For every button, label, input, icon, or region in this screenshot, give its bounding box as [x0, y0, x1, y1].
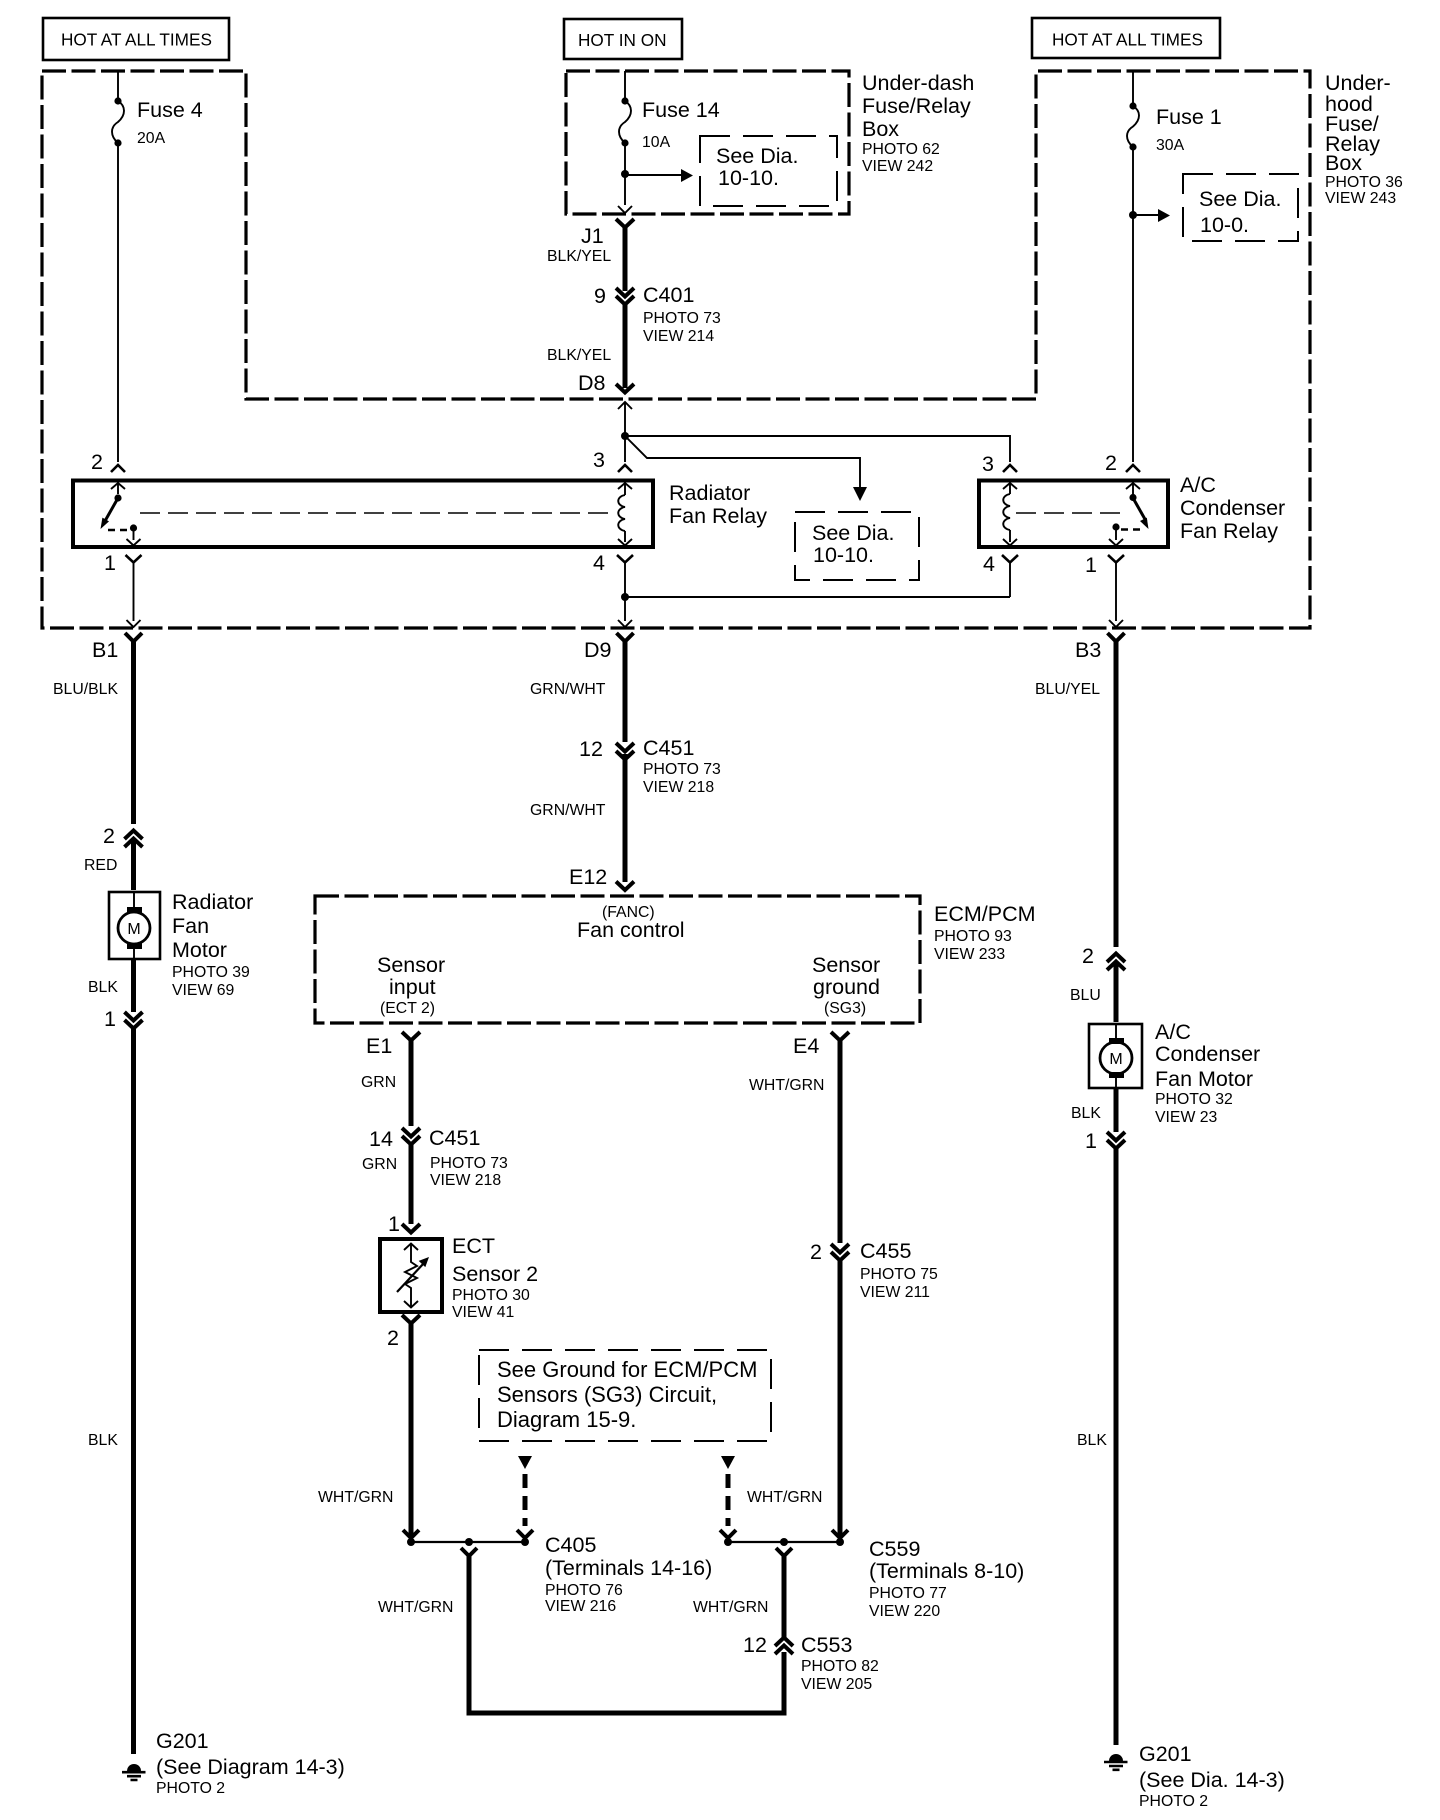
svg-text:(Terminals 14-16): (Terminals 14-16) [545, 1556, 712, 1580]
svg-text:RED: RED [84, 857, 117, 874]
svg-text:Radiator: Radiator [172, 890, 253, 914]
svg-text:2: 2 [103, 824, 115, 848]
svg-text:2: 2 [810, 1240, 822, 1264]
svg-text:Fan control: Fan control [577, 918, 685, 942]
svg-text:12: 12 [743, 1633, 767, 1657]
svg-text:PHOTO 73: PHOTO 73 [430, 1155, 508, 1172]
svg-text:2: 2 [1082, 944, 1094, 968]
svg-text:E4: E4 [793, 1034, 819, 1058]
svg-text:C455: C455 [860, 1239, 911, 1263]
svg-text:PHOTO 2: PHOTO 2 [1139, 1793, 1208, 1810]
svg-text:10-0.: 10-0. [1200, 213, 1249, 237]
svg-text:J1: J1 [581, 224, 604, 248]
svg-text:G201: G201 [1139, 1742, 1192, 1766]
svg-text:1: 1 [388, 1212, 400, 1236]
svg-text:10A: 10A [642, 134, 671, 151]
svg-text:Radiator: Radiator [669, 481, 750, 505]
svg-text:Fan: Fan [172, 914, 209, 938]
svg-text:VIEW 242: VIEW 242 [862, 158, 933, 175]
svg-text:C451: C451 [429, 1126, 480, 1150]
svg-text:See Dia.: See Dia. [1199, 187, 1281, 211]
svg-text:PHOTO 82: PHOTO 82 [801, 1658, 879, 1675]
svg-text:PHOTO 36: PHOTO 36 [1325, 174, 1403, 191]
svg-text:3: 3 [982, 452, 994, 476]
svg-text:9: 9 [594, 284, 606, 308]
svg-text:E1: E1 [366, 1034, 392, 1058]
svg-text:Sensor: Sensor [377, 953, 445, 977]
svg-text:VIEW 214: VIEW 214 [643, 328, 714, 345]
svg-text:GRN: GRN [362, 1156, 397, 1173]
svg-text:VIEW 218: VIEW 218 [643, 779, 714, 796]
svg-text:WHT/GRN: WHT/GRN [318, 1489, 393, 1506]
svg-text:PHOTO 62: PHOTO 62 [862, 141, 940, 158]
svg-text:ground: ground [813, 975, 880, 999]
svg-text:Condenser: Condenser [1180, 496, 1285, 520]
svg-text:(See Diagram 14-3): (See Diagram 14-3) [156, 1755, 345, 1779]
svg-text:C405: C405 [545, 1533, 596, 1557]
svg-text:BLU: BLU [1070, 987, 1101, 1004]
svg-text:input: input [389, 975, 436, 999]
svg-text:Fuse 4: Fuse 4 [137, 98, 203, 122]
svg-text:20A: 20A [137, 130, 166, 147]
svg-text:BLK/YEL: BLK/YEL [547, 347, 611, 364]
svg-text:Box: Box [1325, 151, 1362, 175]
svg-text:12: 12 [579, 737, 603, 761]
svg-text:(Terminals 8-10): (Terminals 8-10) [869, 1559, 1024, 1583]
svg-text:VIEW 218: VIEW 218 [430, 1172, 501, 1189]
svg-text:VIEW 216: VIEW 216 [545, 1598, 616, 1615]
svg-text:Fuse/Relay: Fuse/Relay [862, 94, 971, 118]
svg-text:VIEW 41: VIEW 41 [452, 1304, 515, 1321]
svg-text:(See Dia. 14-3): (See Dia. 14-3) [1139, 1768, 1285, 1792]
svg-text:Sensor 2: Sensor 2 [452, 1262, 538, 1286]
svg-text:10-10.: 10-10. [718, 166, 779, 190]
svg-text:1: 1 [104, 1007, 116, 1031]
svg-text:ECT: ECT [452, 1234, 495, 1258]
svg-text:4: 4 [983, 552, 995, 576]
svg-text:Fan Motor: Fan Motor [1155, 1067, 1253, 1091]
svg-text:BLK/YEL: BLK/YEL [547, 248, 611, 265]
svg-text:BLU/BLK: BLU/BLK [53, 681, 118, 698]
svg-text:Fuse 1: Fuse 1 [1156, 105, 1222, 129]
svg-text:2: 2 [1105, 451, 1117, 475]
svg-text:1: 1 [1085, 1129, 1097, 1153]
svg-text:2: 2 [387, 1326, 399, 1350]
svg-text:PHOTO 77: PHOTO 77 [869, 1585, 947, 1602]
svg-text:WHT/GRN: WHT/GRN [747, 1489, 822, 1506]
svg-text:(SG3): (SG3) [824, 1000, 866, 1017]
svg-text:C559: C559 [869, 1537, 920, 1561]
svg-text:PHOTO 32: PHOTO 32 [1155, 1091, 1233, 1108]
svg-text:VIEW 23: VIEW 23 [1155, 1109, 1218, 1126]
svg-text:VIEW 205: VIEW 205 [801, 1676, 872, 1693]
svg-text:VIEW 233: VIEW 233 [934, 946, 1005, 963]
svg-text:PHOTO 75: PHOTO 75 [860, 1266, 938, 1283]
svg-text:See Ground for ECM/PCM: See Ground for ECM/PCM [497, 1357, 757, 1382]
svg-text:PHOTO 2: PHOTO 2 [156, 1780, 225, 1797]
svg-text:ECM/PCM: ECM/PCM [934, 902, 1036, 926]
svg-text:Fuse 14: Fuse 14 [642, 98, 720, 122]
svg-text:D8: D8 [578, 371, 606, 395]
svg-text:PHOTO 30: PHOTO 30 [452, 1287, 530, 1304]
svg-text:PHOTO 76: PHOTO 76 [545, 1582, 623, 1599]
svg-text:Sensor: Sensor [812, 953, 880, 977]
svg-text:1: 1 [1085, 553, 1097, 577]
svg-text:Fan Relay: Fan Relay [1180, 519, 1278, 543]
svg-text:BLK: BLK [88, 1432, 118, 1449]
svg-text:4: 4 [593, 551, 605, 575]
svg-text:See Dia.: See Dia. [812, 521, 894, 545]
svg-text:WHT/GRN: WHT/GRN [749, 1077, 824, 1094]
svg-text:VIEW 69: VIEW 69 [172, 982, 235, 999]
svg-text:14: 14 [369, 1127, 393, 1151]
svg-text:PHOTO 93: PHOTO 93 [934, 928, 1012, 945]
svg-text:GRN/WHT: GRN/WHT [530, 681, 606, 698]
svg-text:Under-dash: Under-dash [862, 71, 974, 95]
svg-text:30A: 30A [1156, 137, 1185, 154]
svg-text:HOT IN ON: HOT IN ON [578, 30, 667, 50]
svg-text:BLK: BLK [1071, 1105, 1101, 1122]
svg-text:Box: Box [862, 117, 899, 141]
svg-text:VIEW 243: VIEW 243 [1325, 190, 1396, 207]
svg-text:HOT AT ALL TIMES: HOT AT ALL TIMES [1052, 30, 1203, 50]
svg-text:Sensors (SG3) Circuit,: Sensors (SG3) Circuit, [497, 1382, 717, 1407]
svg-text:B3: B3 [1075, 638, 1101, 662]
svg-text:A/C: A/C [1180, 473, 1216, 497]
svg-text:1: 1 [104, 551, 116, 575]
svg-text:BLK: BLK [1077, 1432, 1107, 1449]
svg-text:HOT AT ALL TIMES: HOT AT ALL TIMES [61, 30, 212, 50]
svg-text:C401: C401 [643, 283, 694, 307]
svg-text:10-10.: 10-10. [813, 543, 874, 567]
svg-text:Condenser: Condenser [1155, 1042, 1260, 1066]
svg-text:G201: G201 [156, 1729, 209, 1753]
svg-text:C451: C451 [643, 736, 694, 760]
svg-text:PHOTO 39: PHOTO 39 [172, 964, 250, 981]
svg-text:WHT/GRN: WHT/GRN [693, 1599, 768, 1616]
svg-text:Diagram 15-9.: Diagram 15-9. [497, 1407, 636, 1432]
svg-text:WHT/GRN: WHT/GRN [378, 1599, 453, 1616]
svg-text:2: 2 [91, 450, 103, 474]
svg-text:(ECT 2): (ECT 2) [380, 1000, 435, 1017]
svg-text:D9: D9 [584, 638, 611, 662]
svg-text:BLK: BLK [88, 979, 118, 996]
svg-text:M: M [1109, 1051, 1122, 1068]
svg-text:3: 3 [593, 448, 605, 472]
svg-text:Motor: Motor [172, 938, 227, 962]
svg-text:C553: C553 [801, 1633, 852, 1657]
svg-text:See Dia.: See Dia. [716, 144, 798, 168]
svg-text:BLU/YEL: BLU/YEL [1035, 681, 1100, 698]
svg-text:Fan Relay: Fan Relay [669, 504, 767, 528]
svg-text:GRN/WHT: GRN/WHT [530, 802, 606, 819]
svg-text:GRN: GRN [361, 1074, 396, 1091]
svg-text:PHOTO 73: PHOTO 73 [643, 761, 721, 778]
svg-text:PHOTO 73: PHOTO 73 [643, 310, 721, 327]
svg-text:M: M [127, 921, 140, 938]
svg-text:VIEW 211: VIEW 211 [860, 1284, 930, 1301]
svg-text:A/C: A/C [1155, 1020, 1191, 1044]
svg-text:E12: E12 [569, 865, 607, 889]
svg-text:VIEW 220: VIEW 220 [869, 1603, 940, 1620]
svg-text:B1: B1 [92, 638, 118, 662]
